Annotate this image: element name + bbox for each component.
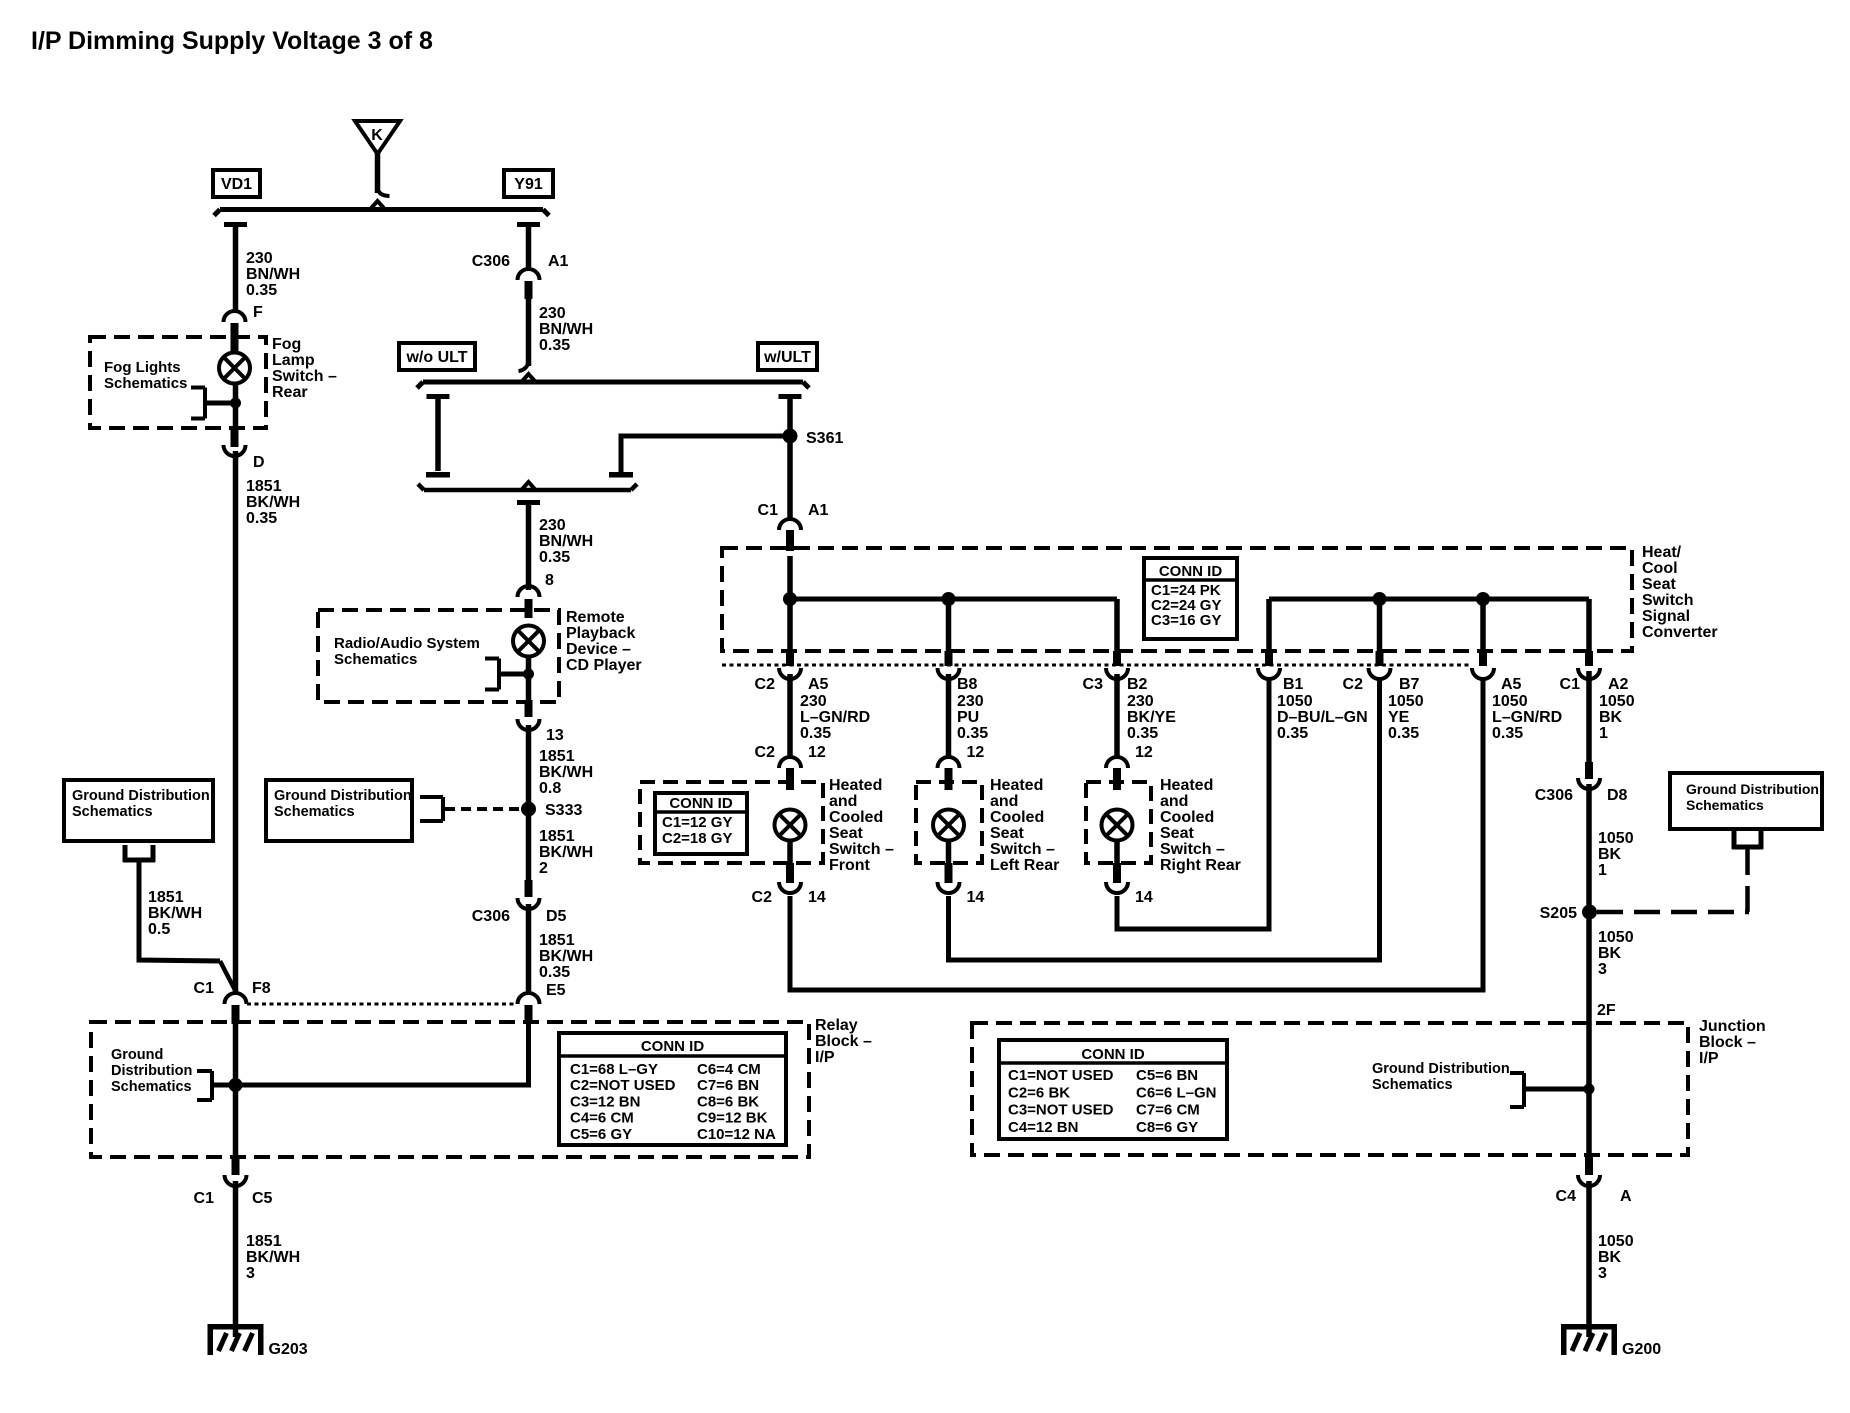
connector pin 12 left rear (female) [938, 757, 960, 768]
svg-text:1050: 1050 [1598, 830, 1634, 847]
svg-text:F: F [253, 304, 263, 321]
ground G200 [1561, 1324, 1617, 1330]
svg-text:Converter: Converter [1642, 624, 1718, 641]
svg-text:Schematics: Schematics [72, 804, 153, 820]
svg-text:A2: A2 [1608, 676, 1629, 693]
bus drop tick right [517, 222, 540, 227]
svg-text:YE: YE [1388, 709, 1410, 726]
converter bottom connector at x=1589 [1585, 651, 1593, 666]
svg-text:Ground Distribution: Ground Distribution [1372, 1061, 1510, 1077]
connector pin 12 left rear (male) [945, 768, 953, 790]
wire A2 ground drop [1586, 599, 1592, 653]
svg-text:Playback: Playback [566, 625, 635, 642]
svg-text:C6=4 CM: C6=4 CM [697, 1061, 761, 1078]
svg-text:C1: C1 [758, 502, 779, 519]
svg-text:Remote: Remote [566, 609, 625, 626]
svg-text:12: 12 [808, 744, 826, 761]
svg-text:3: 3 [1598, 961, 1607, 978]
wire below lamp right rear [1114, 840, 1120, 866]
connector C4 A (female) [1578, 1175, 1600, 1186]
svg-text:Ground: Ground [111, 1047, 163, 1063]
bus VD1-Y91 [220, 207, 543, 212]
svg-text:0.35: 0.35 [1277, 725, 1308, 742]
wire below fog lamp [233, 383, 239, 432]
svg-text:C1=NOT USED: C1=NOT USED [1008, 1067, 1114, 1084]
svg-text:C2=NOT USED: C2=NOT USED [570, 1077, 676, 1094]
svg-text:C5: C5 [252, 1190, 273, 1207]
connector pin 13 (male) [525, 700, 533, 717]
svg-text:Switch –: Switch – [1160, 841, 1225, 858]
converter connector row dotted line [722, 664, 1472, 667]
svg-text:Junction: Junction [1699, 1018, 1766, 1035]
connector C306 pin D5 (female) [518, 898, 540, 909]
connector pin 12 right rear (female) [1106, 757, 1128, 768]
junction block dashed box [972, 1023, 1688, 1155]
svg-text:C306: C306 [1535, 787, 1573, 804]
svg-text:L–GN/RD: L–GN/RD [1492, 709, 1562, 726]
svg-text:Distribution: Distribution [111, 1063, 192, 1079]
connector C306 A1 (female) [518, 269, 540, 280]
svg-text:BK: BK [1598, 846, 1622, 863]
svg-text:Block –: Block – [815, 1033, 872, 1050]
connector pin F (female) [224, 311, 246, 322]
svg-text:S333: S333 [545, 802, 582, 819]
svg-text:1851: 1851 [539, 932, 575, 949]
loop wire left rear switch to B7 [949, 678, 1380, 960]
svg-text:Heat/: Heat/ [1642, 544, 1682, 561]
S361 branch end bar [609, 472, 633, 478]
svg-text:1050: 1050 [1492, 693, 1528, 710]
junction dot front feed [783, 592, 797, 606]
S361 branch wire [621, 436, 783, 472]
wire left rear supply drop [946, 599, 952, 653]
svg-text:I/P: I/P [1699, 1050, 1719, 1067]
svg-text:C2=18 GY: C2=18 GY [662, 830, 732, 847]
svg-text:C4=12 BN: C4=12 BN [1008, 1119, 1078, 1136]
svg-text:Schematics: Schematics [334, 651, 417, 668]
wire converter to seat switch front [787, 674, 793, 758]
bus drop tick w/ULT [779, 394, 802, 399]
converter dashed box [722, 548, 1632, 651]
connector C306 pin D8 (female) [1578, 778, 1600, 789]
dashed wire to S333 [445, 807, 519, 811]
relay block dashed box [91, 1022, 809, 1157]
bracket junction internal [1522, 1073, 1526, 1107]
svg-text:C4: C4 [1556, 1188, 1577, 1205]
svg-text:C7=6 BN: C7=6 BN [697, 1077, 759, 1094]
svg-text:C1: C1 [194, 1190, 215, 1207]
svg-text:D8: D8 [1607, 787, 1628, 804]
svg-text:1851: 1851 [539, 748, 575, 765]
converter return bus [1269, 597, 1589, 602]
connector pin 14 right rear (female) [1106, 882, 1128, 893]
svg-text:and: and [829, 793, 857, 810]
connector C1 C5 (female) [225, 1175, 247, 1186]
svg-text:C306: C306 [472, 253, 510, 270]
svg-text:C1=68 L–GY: C1=68 L–GY [570, 1061, 658, 1078]
svg-text:14: 14 [967, 889, 985, 906]
junction dot A5 return [1476, 592, 1490, 606]
connector pin 8 (female) [518, 586, 540, 597]
connector C306 A1 (male) [525, 281, 533, 299]
svg-text:0.35: 0.35 [246, 510, 277, 527]
svg-text:C2: C2 [755, 676, 776, 693]
connector pin 12 front (male) [786, 768, 794, 790]
connector pin 13 (female) [518, 719, 540, 730]
svg-text:C10=12 NA: C10=12 NA [697, 1126, 776, 1143]
svg-text:B1: B1 [1283, 676, 1304, 693]
svg-text:0.8: 0.8 [539, 780, 561, 797]
svg-text:A1: A1 [808, 502, 829, 519]
bus drop tick CD player [517, 500, 540, 505]
svg-text:Schematics: Schematics [111, 1079, 192, 1095]
seat switch dashed box left rear [916, 782, 982, 863]
converter supply bus [790, 597, 1117, 602]
svg-text:C6=6 L–GN: C6=6 L–GN [1136, 1084, 1216, 1101]
wire D8 to S205 [1586, 784, 1592, 1023]
converter bottom connector at x=1117 [1113, 651, 1121, 666]
w/o ULT stub end bar [426, 472, 450, 478]
bracket right of box [441, 797, 445, 821]
svg-text:230: 230 [1127, 693, 1154, 710]
svg-text:230: 230 [800, 693, 827, 710]
svg-text:Fog: Fog [272, 336, 301, 353]
wire 1851 down to relay block [233, 451, 239, 994]
svg-text:1050: 1050 [1388, 693, 1424, 710]
svg-text:Switch –: Switch – [272, 368, 337, 385]
converter bottom connector at x=790 [786, 651, 794, 666]
svg-text:230: 230 [246, 250, 273, 267]
conn id table junction block [999, 1040, 1227, 1139]
connector pin 14 left rear (female) [938, 882, 960, 893]
chevron feed from K [370, 201, 386, 210]
svg-text:230: 230 [539, 517, 566, 534]
fog lamp switch illumination lamp [219, 353, 250, 384]
loop wire right rear switch to B1 [1117, 678, 1269, 929]
switch branch wire [205, 401, 236, 406]
wire converter to seat switch right rear [1114, 674, 1120, 758]
splice S361 [783, 429, 798, 444]
junction dot relay internal [229, 1078, 243, 1092]
pin E5 connector (female) [518, 993, 540, 1004]
svg-text:BK/WH: BK/WH [246, 1249, 300, 1266]
wire down to S333 [526, 725, 532, 882]
svg-text:Front: Front [829, 857, 871, 874]
wire to ground G200 [1586, 1181, 1592, 1326]
svg-text:2F: 2F [1597, 1002, 1616, 1019]
svg-text:Cooled: Cooled [1160, 809, 1214, 826]
wire main through relay block [233, 1022, 239, 1157]
wire A2 from converter to D8 [1586, 671, 1592, 766]
svg-text:1050: 1050 [1598, 1233, 1634, 1250]
ground distribution schematics box left [64, 780, 213, 841]
svg-text:0.35: 0.35 [800, 725, 831, 742]
connector pin D (male) [231, 430, 239, 447]
wire VD1 branch down to F [233, 226, 239, 313]
svg-text:Block –: Block – [1699, 1034, 1756, 1051]
connector pin 12 right rear (male) [1113, 768, 1121, 790]
svg-text:B7: B7 [1399, 676, 1420, 693]
wire down to ULT bus [526, 299, 532, 366]
seat switch dashed box front [640, 782, 823, 863]
wire below lamp front [787, 840, 793, 866]
svg-text:VD1: VD1 [221, 176, 252, 193]
wire to ground G203 [233, 1181, 239, 1326]
connector pin F (male) [231, 323, 239, 352]
bus drop tick left [224, 222, 247, 227]
svg-text:BK/WH: BK/WH [539, 844, 593, 861]
ground distribution schematics box middle [266, 780, 412, 841]
svg-text:S205: S205 [1540, 905, 1577, 922]
svg-text:0.35: 0.35 [957, 725, 988, 742]
pin E5 connector (male) [525, 1005, 533, 1024]
svg-text:Y91: Y91 [514, 176, 543, 193]
seat switch right rear illumination lamp [1102, 810, 1133, 841]
svg-text:1: 1 [1598, 862, 1607, 879]
svg-text:BN/WH: BN/WH [539, 533, 593, 550]
w/ULT wire down to S361 [787, 399, 793, 519]
converter bottom connector at x=1269 [1265, 651, 1273, 666]
svg-text:0.35: 0.35 [1492, 725, 1523, 742]
svg-text:E5: E5 [546, 982, 566, 999]
svg-text:C9=12 BK: C9=12 BK [697, 1110, 768, 1127]
conn id table converter [1144, 558, 1237, 639]
converter bottom connector at x=1379.5 [1376, 651, 1384, 666]
junction dot B7 return [1373, 592, 1387, 606]
svg-text:CONN ID: CONN ID [641, 1038, 705, 1055]
CD player illumination lamp [513, 626, 544, 657]
svg-text:CD Player: CD Player [566, 657, 642, 674]
svg-text:1050: 1050 [1599, 693, 1635, 710]
connector pin 8 (male) [525, 599, 533, 618]
bracket under box [123, 845, 128, 862]
w/o ULT stub wire [435, 399, 441, 471]
junction dot on lamp wire [230, 398, 241, 409]
svg-text:B2: B2 [1127, 676, 1148, 693]
connector pin D (female) [224, 445, 246, 456]
bracket relay internal [210, 1071, 214, 1100]
svg-text:C5=6 BN: C5=6 BN [1136, 1067, 1198, 1084]
svg-text:Ground Distribution: Ground Distribution [274, 788, 412, 804]
svg-text:Left Rear: Left Rear [990, 857, 1059, 874]
dashed wire S205 to ground distribution [1745, 849, 1750, 912]
svg-text:I/P Dimming Supply Voltage 3 o: I/P Dimming Supply Voltage 3 of 8 [31, 27, 433, 55]
svg-text:C1: C1 [1560, 676, 1581, 693]
svg-text:BK: BK [1599, 709, 1623, 726]
svg-text:Schematics: Schematics [104, 375, 187, 392]
bus drop tick w/o ULT [427, 394, 450, 399]
svg-text:3: 3 [1598, 1265, 1607, 1282]
wire from ground distribution to C1 F8 [139, 862, 220, 961]
wire B7 return drop [1377, 599, 1383, 653]
loop wire front switch to A5 [790, 678, 1483, 990]
svg-text:1851: 1851 [539, 828, 575, 845]
svg-text:1851: 1851 [148, 889, 184, 906]
ULT split bus [423, 380, 803, 385]
converter bottom connector at x=1483 [1479, 651, 1487, 666]
svg-text:C7=6 CM: C7=6 CM [1136, 1102, 1200, 1119]
svg-text:w/ULT: w/ULT [763, 349, 811, 366]
wire Y91 branch down [526, 226, 532, 270]
switch branch bracket [203, 388, 207, 419]
svg-text:C2: C2 [752, 889, 773, 906]
svg-text:Ground Distribution: Ground Distribution [72, 788, 210, 804]
svg-text:L–GN/RD: L–GN/RD [800, 709, 870, 726]
connector C306 pin D8 (male) [1585, 762, 1593, 779]
svg-text:Heated: Heated [990, 777, 1043, 794]
svg-text:230: 230 [539, 305, 566, 322]
svg-text:BN/WH: BN/WH [246, 266, 300, 283]
CD switch branch wire [499, 672, 529, 677]
connector C1 F8 (female) [225, 993, 247, 1004]
conn id table relay block [559, 1033, 786, 1145]
svg-text:Radio/Audio System: Radio/Audio System [334, 635, 480, 652]
svg-text:Schematics: Schematics [1372, 1077, 1453, 1093]
connector C1 A1 (female) [779, 519, 801, 530]
svg-text:Switch –: Switch – [990, 841, 1055, 858]
svg-text:F8: F8 [252, 980, 271, 997]
svg-text:Rear: Rear [272, 384, 308, 401]
svg-text:G203: G203 [269, 1341, 308, 1358]
wire B1 return drop [1266, 599, 1272, 653]
svg-text:CONN ID: CONN ID [1081, 1046, 1145, 1063]
svg-text:BK/WH: BK/WH [539, 948, 593, 965]
power feed triangle K [355, 121, 400, 154]
svg-text:0.35: 0.35 [539, 337, 570, 354]
svg-text:14: 14 [808, 889, 826, 906]
svg-text:I/P: I/P [815, 1049, 835, 1066]
svg-text:230: 230 [957, 693, 984, 710]
option label box w/o ULT [399, 343, 475, 370]
seat switch dashed box right rear [1086, 782, 1151, 863]
svg-text:w/o ULT: w/o ULT [405, 349, 467, 366]
svg-text:3: 3 [246, 1265, 255, 1282]
svg-text:Switch: Switch [1642, 592, 1694, 609]
wire converter to seat switch left rear [946, 674, 952, 758]
svg-text:Cooled: Cooled [829, 809, 883, 826]
connector pin 12 front (female) [779, 757, 801, 768]
wire right rear supply drop [1114, 599, 1120, 653]
svg-text:Right Rear: Right Rear [1160, 857, 1241, 874]
svg-text:S361: S361 [806, 430, 843, 447]
converter bottom connector at x=948.5 [945, 651, 953, 666]
svg-text:Cool: Cool [1642, 560, 1678, 577]
svg-text:Lamp: Lamp [272, 352, 315, 369]
wire A5 return drop [1480, 599, 1486, 653]
svg-text:1: 1 [1599, 725, 1608, 742]
svg-text:D–BU/L–GN: D–BU/L–GN [1277, 709, 1368, 726]
svg-text:BK/WH: BK/WH [246, 494, 300, 511]
svg-text:A: A [1620, 1188, 1632, 1205]
svg-text:Fog Lights: Fog Lights [104, 359, 181, 376]
CD switch branch bracket [497, 659, 501, 690]
connector pin 14 front (male) [786, 863, 794, 883]
svg-text:Seat: Seat [1642, 576, 1676, 593]
svg-text:BK/WH: BK/WH [148, 905, 202, 922]
connector row dotted line F8-E5 [247, 1003, 517, 1006]
wire down to E5 [526, 904, 532, 994]
svg-text:14: 14 [1135, 889, 1153, 906]
svg-text:C2: C2 [1343, 676, 1364, 693]
svg-text:Seat: Seat [990, 825, 1024, 842]
svg-text:C1=12 GY: C1=12 GY [662, 814, 732, 831]
ground distribution schematics box right [1670, 773, 1822, 829]
svg-text:C5=6 GY: C5=6 GY [570, 1126, 632, 1143]
wire below CD lamp [526, 656, 532, 702]
connector C1 C5 (male) [232, 1157, 240, 1175]
svg-text:C3=16 GY: C3=16 GY [1151, 612, 1221, 629]
svg-text:BK/YE: BK/YE [1127, 709, 1176, 726]
svg-text:BK: BK [1598, 1249, 1622, 1266]
svg-text:C8=6 GY: C8=6 GY [1136, 1119, 1198, 1136]
svg-text:12: 12 [967, 744, 985, 761]
svg-text:BK: BK [1598, 945, 1622, 962]
svg-text:Heated: Heated [829, 777, 882, 794]
ground G203 [208, 1324, 264, 1330]
svg-text:1851: 1851 [246, 478, 282, 495]
splice S205 [1582, 905, 1597, 920]
connector C306 pin D5 (male) [525, 880, 533, 897]
svg-text:A1: A1 [548, 253, 569, 270]
radio/audio system dashed box [318, 610, 559, 702]
connector label box Y91 [504, 170, 553, 197]
svg-text:2: 2 [539, 860, 548, 877]
fog lights schematics dashed box [90, 337, 266, 428]
seat switch front illumination lamp [775, 810, 806, 841]
svg-text:13: 13 [546, 727, 564, 744]
junction dot left rear feed [942, 592, 956, 606]
wire bracket to main wire [1524, 1087, 1589, 1092]
svg-text:Heated: Heated [1160, 777, 1213, 794]
connector C1 F8 (male) [232, 1005, 240, 1024]
bracket under right box [1732, 831, 1737, 849]
svg-text:Seat: Seat [829, 825, 863, 842]
seat switch left rear illumination lamp [933, 810, 964, 841]
svg-text:Signal: Signal [1642, 608, 1690, 625]
svg-text:Seat: Seat [1160, 825, 1194, 842]
connector pin 14 right rear (male) [1113, 863, 1121, 883]
junction dot junction internal [1584, 1084, 1595, 1095]
svg-text:K: K [371, 127, 383, 144]
svg-text:C8=6 BK: C8=6 BK [697, 1093, 759, 1110]
svg-text:CONN ID: CONN ID [669, 795, 733, 812]
svg-text:8: 8 [545, 572, 554, 589]
svg-text:C4=6 CM: C4=6 CM [570, 1110, 634, 1127]
chevron feed from Y91 wire [521, 374, 537, 383]
junction dot on CD lamp wire [523, 669, 534, 680]
svg-text:12: 12 [1135, 744, 1153, 761]
svg-text:and: and [990, 793, 1018, 810]
wire down to CD player pin 8 [526, 505, 532, 590]
svg-text:Switch –: Switch – [829, 841, 894, 858]
svg-text:C2=6 BK: C2=6 BK [1008, 1084, 1070, 1101]
svg-text:0.35: 0.35 [1388, 725, 1419, 742]
svg-text:C3=12 BN: C3=12 BN [570, 1093, 640, 1110]
svg-text:C3=NOT USED: C3=NOT USED [1008, 1102, 1114, 1119]
wire front supply drop [787, 556, 793, 653]
svg-text:D: D [253, 454, 265, 471]
option label box w/ULT [758, 343, 817, 370]
svg-text:C3: C3 [1083, 676, 1104, 693]
svg-text:0.35: 0.35 [539, 549, 570, 566]
svg-text:1050: 1050 [1277, 693, 1313, 710]
svg-text:Ground Distribution: Ground Distribution [1686, 781, 1819, 797]
collector bus to CD player [424, 488, 631, 493]
connector pin 14 front (female) [779, 882, 801, 893]
connector label box VD1 [213, 170, 260, 197]
wire below lamp left rear [946, 840, 952, 866]
svg-text:C1: C1 [194, 980, 215, 997]
